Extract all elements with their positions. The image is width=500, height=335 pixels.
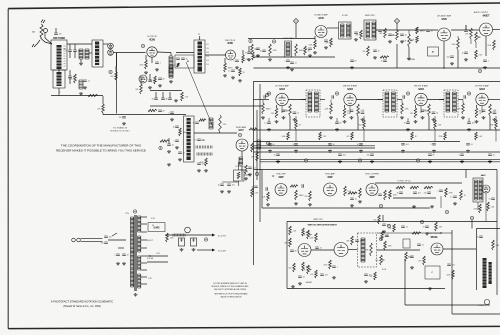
tube V16 horiz output [431, 243, 443, 255]
oscillator bar slits [95, 45, 99, 63]
wire secondary lead 1 [141, 223, 147, 225]
wire L5 top [170, 53, 172, 57]
wire B+ bus 1 [254, 129, 500, 131]
contrast control box [234, 170, 245, 181]
tuner strip hatch [57, 48, 62, 66]
ground R19 [238, 79, 242, 82]
wire secondary lead 3 [141, 239, 147, 241]
wire drop volume [408, 30, 410, 34]
electrolytic C132 [179, 238, 185, 246]
wire heater 3RD PIX IF AMP [420, 106, 422, 113]
1st IF transformer slug bar [198, 42, 203, 72]
ground cathode cap 4TH PIX IF AMP [482, 116, 486, 119]
power transformer primary winding [131, 217, 134, 287]
wire R12 top [140, 76, 142, 84]
wire vert box bottom [287, 288, 445, 290]
wire bottom yoke bus [405, 304, 490, 306]
component box fuse [403, 239, 410, 248]
ground lower C73 [428, 160, 432, 163]
electrolytic C133 [191, 238, 197, 246]
wire C17 top [248, 46, 250, 52]
ground det [167, 163, 171, 166]
ground AFC 2 [412, 205, 416, 208]
wire grid down 3RD PIX IF AMP [401, 100, 403, 104]
resistor R131 contrast [237, 172, 240, 179]
wire drop R52 [457, 36, 459, 38]
wire sound strip lower bus [253, 56, 335, 58]
power transformer secondary winding 4 [138, 274, 141, 288]
wire screen to bus 2ND PIX IF AMP [357, 116, 359, 130]
ground AFC [430, 205, 434, 208]
wire to agc bus 2ND PIX IF AMP [363, 129, 365, 142]
ground C18 [231, 76, 235, 79]
wire contrast down [238, 181, 240, 186]
wire C93 down [440, 196, 442, 208]
ratio detector transformer T4 [364, 20, 376, 40]
wire sound strip grid bus [248, 38, 315, 40]
ground bus C62 [328, 150, 332, 153]
ground agc cap 2ND PIX IF AMP [335, 128, 339, 131]
wire secondary lead 8 [141, 276, 147, 278]
wire IF top boundary bus [253, 81, 500, 83]
wire HV box top [477, 228, 500, 230]
test point diamond TP8 [394, 18, 399, 23]
ground C98 [425, 232, 429, 235]
rectifier label box [148, 223, 165, 232]
ground C22 [122, 122, 126, 125]
wire AC to transformer [108, 239, 126, 241]
ground lower C71 [338, 160, 342, 163]
wire det to video amp grid [194, 132, 237, 134]
tuner lower strip bar [53, 70, 65, 88]
ground C46 [354, 38, 358, 41]
tube 4TH PIX IF AMP [476, 93, 488, 105]
wire into T5 [301, 99, 306, 101]
ground vert left [291, 285, 295, 288]
wire agc cap 2ND PIX IF AMP [336, 118, 338, 122]
test point TP22 [379, 237, 382, 240]
wire secondary lead 9 [141, 283, 147, 285]
tube 1ST PIX IF AMP [276, 93, 288, 105]
ground C43 [290, 68, 294, 71]
ground agc cap 4TH PIX IF AMP [467, 128, 471, 131]
tube V14 vert osc [298, 244, 311, 257]
test point bus TP12 [416, 159, 419, 162]
capacitor grid 2ND PIX IF AMP [332, 95, 333, 99]
ground C135 [122, 262, 126, 265]
wire into vert box [382, 215, 384, 222]
wire secondary lead 7 [141, 269, 147, 271]
wire out of T5 [320, 99, 325, 101]
video det transformer T2 box [184, 116, 195, 162]
wire V3 plate to L5 [157, 51, 171, 54]
resistor R92 [424, 186, 433, 188]
AGC diagonal wire [186, 62, 213, 127]
ground R80 [266, 203, 270, 206]
resistor R124 [412, 232, 421, 234]
ground cathode 4TH PIX IF AMP [475, 120, 479, 123]
wire into T6 [378, 99, 383, 101]
wire volume to ground [408, 47, 410, 57]
wire C12 [149, 74, 151, 80]
wire bus 3b [254, 145, 376, 147]
test point TP2 [141, 44, 144, 47]
wire decoupling 2ND PIX IF AMP [363, 116, 365, 120]
wire vertical feed to video bus [116, 53, 118, 114]
ground lower C74 [460, 160, 464, 163]
ground R41 [268, 58, 272, 61]
wire B+ bus 4 [254, 151, 500, 153]
test point TP9 [478, 69, 481, 72]
wire IF row input [254, 99, 270, 101]
test point TP4 [238, 133, 241, 136]
wire right vertical bus [496, 170, 498, 296]
ground C107 [364, 280, 368, 283]
4.5MC sound IF transformer T3 [339, 22, 352, 39]
wire grid down 1ST PIX IF AMP [262, 100, 264, 104]
wire agc cap 1ST PIX IF AMP [268, 118, 270, 122]
test point 3RD PIX IF AMP [406, 92, 409, 95]
AC plug [72, 238, 103, 242]
wire R9 top [102, 96, 104, 104]
wire screen to bus 3RD PIX IF AMP [428, 116, 430, 130]
wire cathode 4TH PIX IF AMP [476, 105, 478, 108]
oscillator slug bar [95, 42, 99, 66]
test point TP14 [255, 172, 258, 175]
capacitor grid 1ST PIX IF AMP [264, 95, 265, 99]
test point TP21 [204, 238, 207, 241]
wire cathode 2ND PIX IF AMP [344, 105, 346, 108]
test point TP20 [133, 210, 136, 213]
resistor R22 [148, 109, 157, 111]
wire C2 bottom [74, 51, 76, 58]
wire V13 down to vert box [485, 193, 487, 222]
ground bus C65 [432, 150, 436, 153]
test point TP3 [159, 146, 162, 149]
pilot lamp circle [185, 227, 191, 233]
junction dot [443, 67, 444, 68]
ground C49 [400, 40, 404, 43]
test point 1ST PIX IF AMP [267, 92, 270, 95]
ground R11 [144, 71, 148, 74]
tube V15 vert output [334, 243, 348, 257]
test point TP17 [387, 224, 390, 227]
ground grid resistor 4TH PIX IF AMP [461, 116, 465, 119]
wire TP5 lead [295, 24, 297, 38]
wire to agc bus 3RD PIX IF AMP [434, 129, 436, 142]
ground C44 [324, 46, 328, 49]
ground C33 [248, 173, 252, 176]
test point bus TP11 [358, 159, 361, 162]
ground bus C66 [466, 150, 470, 153]
wire AFC lower bus [377, 232, 452, 234]
wire C3 [55, 28, 57, 33]
wire to agc bus 4TH PIX IF AMP [495, 129, 497, 142]
wire R43 top [314, 36, 316, 40]
ground screen cap 2ND PIX IF AMP [361, 118, 365, 121]
wire drop R50 [416, 27, 418, 30]
tube V11 sync amplifier [324, 183, 337, 196]
tube V4 mixer half [139, 75, 147, 83]
T1 winding tick labels [206, 44, 209, 66]
IF transformer T6 box [383, 90, 397, 117]
ground L3 [79, 92, 83, 95]
wire agc cap 4TH PIX IF AMP [468, 118, 470, 122]
wire B+ rail [165, 234, 212, 236]
wire decoupling 4TH PIX IF AMP [495, 116, 497, 120]
ground C25 [167, 150, 171, 153]
wire AFC bottom [393, 197, 436, 199]
junction filament [149, 255, 150, 256]
wire secondary lead 6 [141, 262, 147, 264]
wire contrast to bus [244, 174, 250, 176]
wire into T8 [465, 170, 467, 179]
wire filament 1 [147, 255, 168, 257]
wire video amp to contrast [238, 162, 240, 170]
wire decoupling 3RD PIX IF AMP [434, 116, 436, 120]
wire AFC top [375, 182, 462, 184]
ground bus C63 [359, 150, 363, 153]
wire bus 3 [254, 147, 376, 149]
wire R48 to bus [396, 44, 398, 68]
ground C45 [308, 54, 312, 57]
ground agc cap 3RD PIX IF AMP [406, 128, 410, 131]
capacitor C81 [302, 184, 303, 188]
ground R32 [244, 177, 248, 180]
wire IF lower bus [150, 105, 262, 107]
wire sync strip top bus [254, 169, 498, 171]
resistor R81 [290, 185, 298, 187]
capacitor grid 3RD PIX IF AMP [403, 95, 404, 99]
wire vert box top [287, 221, 497, 223]
wire C1 top [69, 44, 71, 50]
ground cathode cap 2ND PIX IF AMP [350, 116, 354, 119]
ground R82 [294, 202, 298, 205]
wire B+ 135 rail [197, 249, 212, 251]
ground C53 [350, 66, 354, 69]
wire cap pair top [118, 247, 124, 249]
wire secondary lead 2 [141, 231, 147, 233]
test point TP18 [420, 220, 423, 223]
ground grid resistor 1ST PIX IF AMP [261, 116, 265, 119]
ground C27 [175, 146, 179, 149]
wire stage2 plate [356, 99, 383, 101]
wire heater 4TH PIX IF AMP [481, 106, 483, 113]
coil L9 series peaking [196, 146, 212, 149]
wire pix box bottom [452, 313, 500, 315]
wire stage4 plate [488, 99, 500, 101]
ground lower C70 [276, 160, 280, 163]
arrow B+ 135 [212, 249, 215, 252]
test point 2ND PIX IF AMP [335, 92, 338, 95]
T2 bar slits [187, 121, 191, 156]
ground lower C75 [488, 160, 492, 163]
ground C82 [350, 204, 354, 207]
wire contrast net [222, 181, 239, 183]
wire pix box left [451, 230, 453, 314]
wire screen to bus 4TH PIX IF AMP [489, 116, 491, 130]
wire secondary lead 0 [141, 216, 147, 218]
ground screen cap 1ST PIX IF AMP [293, 118, 297, 121]
coil L8 peaking [209, 118, 213, 129]
tube 3RD PIX IF AMP [415, 93, 427, 105]
wire sync strip bottom bus [262, 207, 430, 209]
ground cathode 3RD PIX IF AMP [414, 120, 418, 123]
wire heater 2ND PIX IF AMP [349, 106, 351, 113]
coil L5 interstage choke [169, 56, 173, 74]
ground bus C64 [401, 150, 405, 153]
wire C2 top [74, 44, 76, 50]
wire left vertical bus [253, 82, 255, 265]
wire to osc section [89, 52, 92, 54]
resistor R25 [160, 140, 169, 142]
wire cathode 3RD PIX IF AMP [415, 105, 417, 108]
ground C52 [483, 66, 487, 69]
tube 2ND PIX IF AMP [344, 93, 356, 105]
wire R5 top [115, 66, 117, 72]
wire to contrast [241, 166, 243, 180]
wire R17 top [242, 50, 244, 55]
wire T1 top lead [199, 36, 201, 40]
ground C54 [373, 56, 377, 59]
wire C25 [168, 138, 170, 144]
ground R16 [223, 74, 227, 77]
wire antenna to tuner [45, 38, 52, 44]
wire tuner bottom bus [51, 95, 103, 97]
wire yoke return vertical [404, 260, 406, 305]
test point IF input [265, 93, 268, 96]
wire drop C51 [465, 25, 467, 30]
wire AGC bus [103, 114, 186, 116]
wire small top bus [150, 90, 182, 92]
ground C133 [192, 248, 196, 251]
ground C96 [382, 230, 386, 233]
tuner lower bar slits [57, 75, 62, 84]
wire vert box left [286, 222, 288, 289]
wire grid down 4TH PIX IF AMP [462, 100, 464, 104]
wire osc to tube [103, 43, 108, 45]
ground lower C72 [370, 160, 374, 163]
ground R43 [313, 51, 317, 54]
wire tuner sections [58, 69, 60, 72]
wire tuner bottom lead [58, 88, 60, 96]
paper texture [0, 0, 1, 1]
wire pot down [475, 42, 477, 48]
tube V8 1st audio amp [438, 28, 451, 41]
ground L1 [79, 62, 83, 65]
sound takeoff diamond TP5 [293, 18, 298, 23]
test point TP16 [445, 210, 448, 213]
IF transformer T5 box [306, 90, 320, 117]
ground C56 [464, 58, 468, 61]
ground C104 [332, 276, 336, 279]
wire junction [116, 53, 118, 66]
capacitor C80 [266, 187, 267, 191]
tube V7 sound IF amp [315, 26, 327, 38]
test point TP1 [109, 70, 112, 73]
ground cathode 1ST PIX IF AMP [275, 120, 279, 123]
wire out of T6 [397, 99, 402, 101]
wire decoupling 1ST PIX IF AMP [295, 116, 297, 120]
power transformer secondary winding 1 [138, 216, 141, 232]
1st IF transformer T1 box [194, 40, 205, 73]
on-off switch [112, 233, 117, 236]
tube V3b envelope tick [151, 57, 153, 63]
tube V6 video amp [236, 139, 248, 151]
wire out of T7 [458, 99, 463, 101]
coil L3 filament choke [79, 80, 83, 89]
wire C19 top [155, 92, 157, 98]
oscillator section box [92, 40, 103, 67]
wire heater 1ST PIX IF AMP [281, 106, 283, 113]
ground C5 [83, 86, 87, 89]
ground cathode cap 1ST PIX IF AMP [282, 116, 286, 119]
resistor R27 [199, 119, 206, 121]
coil L10 [197, 153, 212, 156]
flyback secondary winding [489, 262, 492, 284]
wire R53 down [470, 39, 472, 44]
ground agc cap 1ST PIX IF AMP [267, 128, 271, 131]
wire C4 down [69, 77, 71, 84]
power transformer secondary winding 2 [138, 236, 141, 252]
ground screen cap 4TH PIX IF AMP [493, 118, 497, 121]
ground bus C61 [294, 150, 298, 153]
tube V2 RF osc [108, 43, 114, 49]
ground horiz [428, 287, 432, 290]
wire grid down 2ND PIX IF AMP [330, 100, 332, 104]
test point TP19 [470, 216, 473, 219]
tube V10 sync separator [275, 184, 287, 196]
ground bus cap [174, 99, 178, 102]
tube V2b [108, 50, 114, 56]
wire osc out [113, 52, 116, 54]
wire AGC bus 2 [254, 141, 461, 143]
capacitor grid 4TH PIX IF AMP [464, 95, 465, 99]
tube V13 horiz osc [482, 185, 490, 193]
tube V9 audio output [480, 23, 493, 36]
ground L6 [169, 80, 173, 83]
wire secondary lead 5 [141, 255, 147, 257]
ground R29 [204, 169, 208, 172]
mixer coil L2 [85, 49, 89, 59]
wire into T1 [176, 52, 194, 54]
wire ratio det to AF amp [376, 29, 438, 31]
ground C137 [227, 190, 231, 193]
ground screen cap 3RD PIX IF AMP [432, 118, 436, 121]
video det transformer bar [187, 118, 191, 160]
tube V3 1st pix IF amp [147, 47, 157, 57]
T1 bar slits [198, 45, 203, 66]
ground C31 [197, 169, 201, 172]
wire AF amp to output [451, 29, 479, 31]
wire to agc bus 1ST PIX IF AMP [295, 129, 297, 142]
power transformer T11 core [134, 215, 136, 291]
ground grid resistor 2ND PIX IF AMP [329, 116, 333, 119]
filter choke L20 [173, 234, 185, 237]
wire T9 to yoke [377, 249, 420, 251]
test point 4TH PIX IF AMP [467, 92, 470, 95]
wire C1 bottom [69, 51, 71, 58]
ground C16 [235, 66, 239, 69]
resistor R57 [380, 56, 389, 58]
resistor R91 [410, 186, 419, 188]
wire V9 cathode [485, 36, 487, 56]
wire stage3 plate [427, 99, 444, 101]
resistor R90 [396, 186, 405, 188]
wire R52 to bus [457, 50, 459, 68]
test point TP6 [249, 39, 252, 42]
vert output transformer T9 dashed box [358, 233, 377, 267]
